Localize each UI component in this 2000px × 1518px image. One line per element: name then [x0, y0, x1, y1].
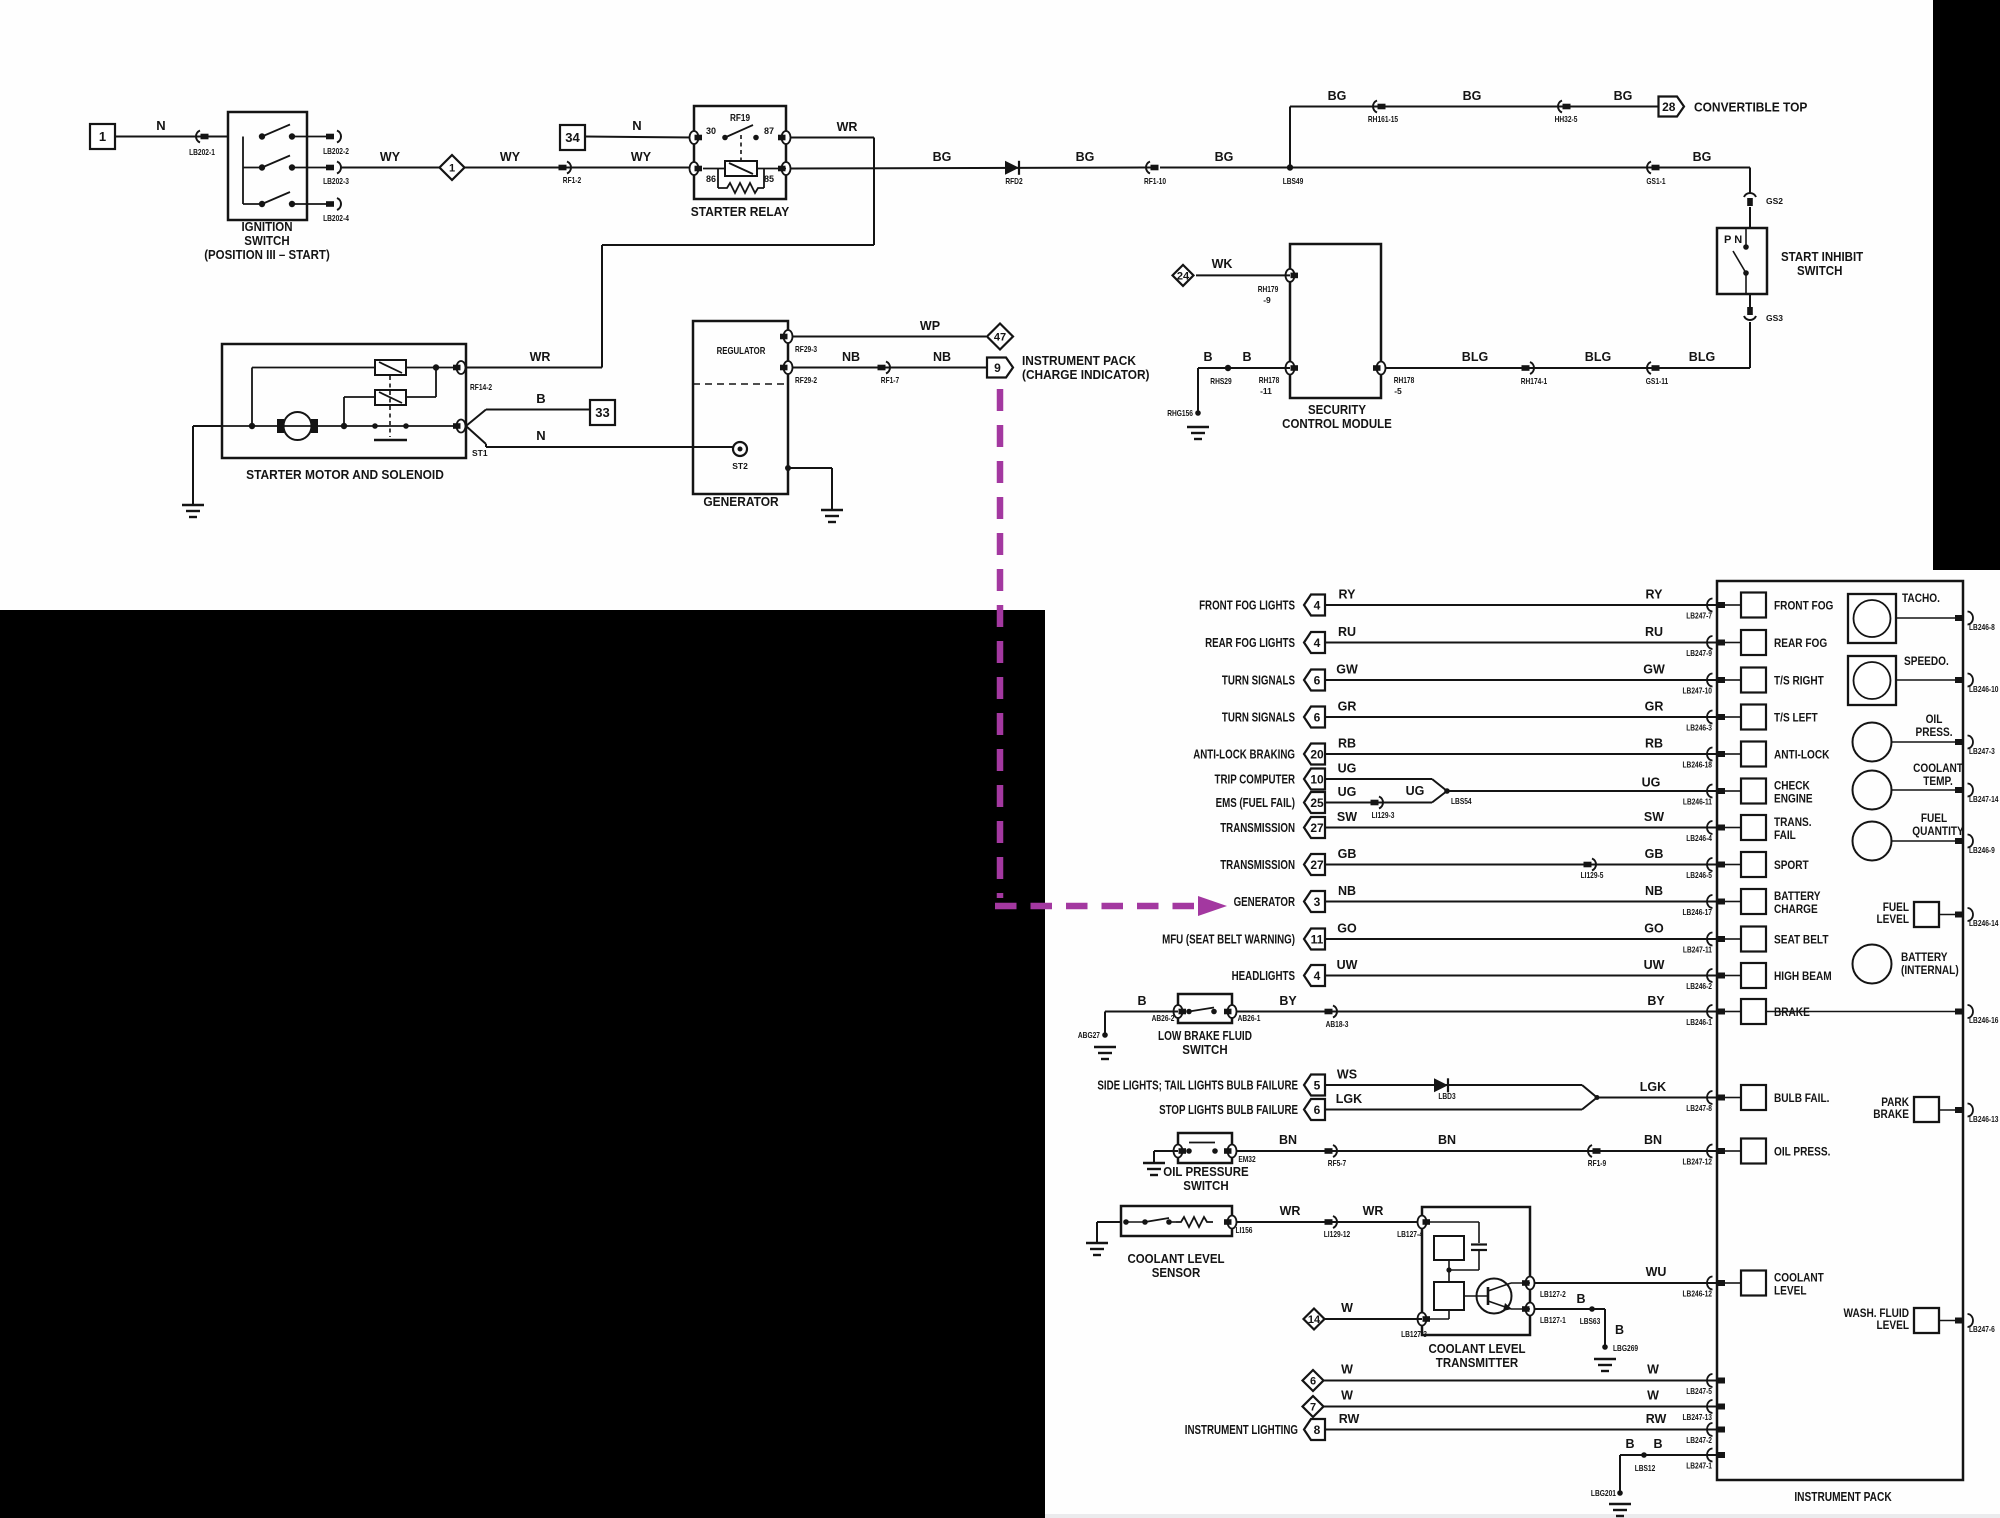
svg-text:ANTI-LOCK BRAKING: ANTI-LOCK BRAKING	[1193, 748, 1295, 762]
svg-text:CONTROL MODULE: CONTROL MODULE	[1282, 417, 1392, 431]
svg-text:STARTER RELAY: STARTER RELAY	[691, 204, 790, 219]
svg-text:SWITCH: SWITCH	[1183, 1179, 1228, 1193]
svg-text:RH179: RH179	[1258, 284, 1279, 294]
svg-text:27: 27	[1310, 858, 1324, 872]
svg-text:6: 6	[1310, 1376, 1316, 1388]
svg-text:LB202-2: LB202-2	[323, 146, 349, 156]
svg-text:AB26-2: AB26-2	[1152, 1013, 1175, 1023]
svg-text:1: 1	[449, 163, 455, 175]
svg-text:UW: UW	[1644, 958, 1665, 972]
svg-text:B: B	[1242, 350, 1251, 364]
svg-text:TACHO.: TACHO.	[1902, 591, 1940, 605]
svg-text:OIL: OIL	[1926, 712, 1943, 726]
svg-text:ST1: ST1	[472, 448, 488, 458]
svg-text:INSTRUMENT PACK: INSTRUMENT PACK	[1022, 354, 1136, 368]
svg-text:9: 9	[994, 361, 1001, 375]
svg-text:UG: UG	[1338, 785, 1357, 799]
svg-text:LB246-3: LB246-3	[1686, 723, 1712, 733]
svg-text:(INTERNAL): (INTERNAL)	[1901, 963, 1959, 977]
svg-text:UW: UW	[1337, 958, 1358, 972]
svg-text:6: 6	[1314, 674, 1321, 688]
svg-text:25: 25	[1310, 796, 1324, 810]
svg-text:GS2: GS2	[1766, 196, 1783, 206]
svg-text:FUEL: FUEL	[1921, 811, 1947, 825]
svg-text:LB246-14: LB246-14	[1969, 918, 1999, 928]
svg-text:START INHIBIT: START INHIBIT	[1781, 250, 1864, 264]
svg-text:GS1-1: GS1-1	[1646, 176, 1665, 186]
svg-text:28: 28	[1662, 100, 1676, 114]
svg-text:LBG269: LBG269	[1613, 1343, 1638, 1353]
svg-text:11: 11	[1311, 933, 1324, 947]
svg-text:87: 87	[764, 126, 774, 136]
svg-text:-11: -11	[1260, 386, 1272, 396]
svg-text:FRONT FOG LIGHTS: FRONT FOG LIGHTS	[1199, 599, 1295, 613]
svg-text:LB202-4: LB202-4	[323, 213, 349, 223]
svg-text:SW: SW	[1644, 810, 1664, 824]
svg-text:LB127-4: LB127-4	[1397, 1229, 1423, 1239]
svg-text:RF29-2: RF29-2	[795, 375, 817, 385]
svg-text:ST2: ST2	[732, 461, 748, 471]
svg-text:47: 47	[994, 332, 1006, 344]
svg-text:BG: BG	[1215, 150, 1234, 164]
svg-text:RH178: RH178	[1259, 375, 1280, 385]
svg-text:B: B	[1137, 994, 1146, 1008]
svg-text:5: 5	[1314, 1079, 1321, 1093]
svg-text:UG: UG	[1406, 784, 1425, 798]
svg-text:AB26-1: AB26-1	[1238, 1013, 1261, 1023]
svg-text:BY: BY	[1279, 994, 1297, 1008]
svg-text:WP: WP	[920, 319, 940, 333]
svg-text:ABG27: ABG27	[1078, 1030, 1100, 1040]
svg-text:30: 30	[706, 126, 716, 136]
svg-text:85: 85	[764, 174, 774, 184]
svg-text:OIL PRESSURE: OIL PRESSURE	[1163, 1165, 1248, 1179]
svg-text:W: W	[1647, 1363, 1659, 1377]
svg-text:BULB FAIL.: BULB FAIL.	[1774, 1091, 1829, 1105]
svg-text:LBS63: LBS63	[1580, 1316, 1601, 1326]
svg-text:34: 34	[565, 130, 580, 145]
svg-text:GS1-11: GS1-11	[1646, 376, 1669, 386]
svg-text:PRESS.: PRESS.	[1916, 725, 1953, 739]
svg-text:SENSOR: SENSOR	[1152, 1266, 1201, 1280]
svg-text:GB: GB	[1645, 847, 1664, 861]
svg-text:GO: GO	[1644, 922, 1664, 936]
svg-text:SPEEDO.: SPEEDO.	[1904, 654, 1949, 668]
svg-text:LEVEL: LEVEL	[1877, 912, 1910, 926]
svg-text:SIDE LIGHTS; TAIL LIGHTS BULB: SIDE LIGHTS; TAIL LIGHTS BULB FAILURE	[1097, 1079, 1298, 1093]
svg-text:W: W	[1647, 1389, 1659, 1403]
svg-text:SECURITY: SECURITY	[1308, 403, 1367, 417]
svg-text:BATTERY: BATTERY	[1774, 889, 1821, 903]
svg-text:LGK: LGK	[1640, 1080, 1666, 1094]
svg-text:BLG: BLG	[1689, 350, 1715, 364]
svg-text:LB247-6: LB247-6	[1969, 1324, 1995, 1334]
svg-text:SEAT BELT: SEAT BELT	[1774, 933, 1829, 947]
svg-text:INSTRUMENT LIGHTING: INSTRUMENT LIGHTING	[1185, 1423, 1298, 1437]
svg-text:LB247-2: LB247-2	[1686, 1435, 1712, 1445]
svg-text:3: 3	[1314, 895, 1321, 909]
svg-text:LB247-1: LB247-1	[1686, 1461, 1712, 1471]
svg-text:LB246-17: LB246-17	[1683, 907, 1713, 917]
svg-text:-5: -5	[1394, 386, 1402, 396]
svg-text:HH32-5: HH32-5	[1555, 114, 1578, 124]
svg-text:BLG: BLG	[1585, 350, 1611, 364]
svg-text:LBG201: LBG201	[1591, 1488, 1616, 1498]
svg-text:RFD2: RFD2	[1005, 176, 1023, 186]
svg-text:TEMP.: TEMP.	[1923, 774, 1953, 788]
svg-text:BN: BN	[1438, 1133, 1456, 1147]
svg-text:LBS49: LBS49	[1283, 176, 1304, 186]
svg-text:MFU (SEAT BELT WARNING): MFU (SEAT BELT WARNING)	[1162, 933, 1295, 947]
svg-text:SWITCH: SWITCH	[1182, 1043, 1227, 1057]
svg-text:WS: WS	[1337, 1068, 1357, 1082]
svg-text:WY: WY	[500, 150, 521, 164]
svg-text:7: 7	[1310, 1402, 1316, 1414]
svg-text:LEVEL: LEVEL	[1774, 1284, 1807, 1298]
svg-text:SWITCH: SWITCH	[244, 234, 289, 248]
svg-text:24: 24	[1177, 270, 1190, 282]
svg-text:LB246-13: LB246-13	[1969, 1114, 1999, 1124]
svg-text:COOLANT: COOLANT	[1774, 1271, 1824, 1285]
svg-text:GENERATOR: GENERATOR	[1234, 895, 1295, 909]
svg-text:OIL PRESS.: OIL PRESS.	[1774, 1145, 1830, 1159]
svg-text:10: 10	[1310, 773, 1324, 787]
svg-text:RW: RW	[1646, 1412, 1667, 1426]
svg-text:RF1-10: RF1-10	[1144, 176, 1166, 186]
svg-text:LI129-3: LI129-3	[1372, 810, 1395, 820]
svg-text:IGNITION: IGNITION	[241, 220, 292, 234]
svg-text:GW: GW	[1643, 663, 1665, 677]
svg-text:NB: NB	[1338, 884, 1356, 898]
svg-text:RW: RW	[1339, 1412, 1360, 1426]
svg-text:RU: RU	[1338, 625, 1356, 639]
svg-text:LB247-9: LB247-9	[1686, 648, 1712, 658]
svg-text:RY: RY	[1339, 588, 1357, 602]
svg-text:SWITCH: SWITCH	[1797, 264, 1842, 278]
svg-text:BLG: BLG	[1462, 350, 1488, 364]
svg-text:B: B	[536, 391, 545, 406]
svg-text:RU: RU	[1645, 625, 1663, 639]
svg-text:W: W	[1341, 1363, 1353, 1377]
svg-text:GO: GO	[1337, 922, 1357, 936]
svg-text:TRIP COMPUTER: TRIP COMPUTER	[1215, 773, 1296, 787]
svg-text:LB247-13: LB247-13	[1683, 1412, 1713, 1422]
svg-text:EMS (FUEL FAIL): EMS (FUEL FAIL)	[1216, 796, 1295, 810]
svg-text:W: W	[1341, 1389, 1353, 1403]
svg-text:LB247-12: LB247-12	[1683, 1157, 1713, 1167]
svg-text:LB246-18: LB246-18	[1683, 760, 1713, 770]
svg-text:HEADLIGHTS: HEADLIGHTS	[1232, 969, 1295, 983]
svg-text:RF5-7: RF5-7	[1328, 1158, 1347, 1168]
svg-text:NB: NB	[842, 350, 860, 364]
svg-text:6: 6	[1314, 711, 1321, 725]
svg-text:27: 27	[1310, 821, 1324, 835]
svg-text:LB127-2: LB127-2	[1540, 1289, 1566, 1299]
svg-text:8: 8	[1314, 1423, 1321, 1437]
svg-text:LB247-11: LB247-11	[1683, 945, 1712, 955]
svg-text:AB18-3: AB18-3	[1326, 1019, 1349, 1029]
svg-text:RHG156: RHG156	[1167, 408, 1193, 418]
svg-text:BG: BG	[1328, 89, 1347, 103]
svg-text:WU: WU	[1646, 1265, 1667, 1279]
svg-text:RF19: RF19	[730, 112, 750, 124]
svg-text:WR: WR	[837, 120, 858, 134]
svg-text:1: 1	[99, 129, 106, 144]
svg-text:NB: NB	[1645, 884, 1663, 898]
svg-text:COOLANT LEVEL: COOLANT LEVEL	[1127, 1252, 1224, 1266]
svg-text:WY: WY	[631, 150, 652, 164]
svg-text:GW: GW	[1336, 663, 1358, 677]
svg-text:LB247-5: LB247-5	[1686, 1386, 1712, 1396]
svg-text:STOP LIGHTS BULB FAILURE: STOP LIGHTS BULB FAILURE	[1159, 1103, 1298, 1117]
svg-text:LB247-10: LB247-10	[1683, 686, 1713, 696]
svg-text:RY: RY	[1646, 588, 1664, 602]
svg-text:LBS54: LBS54	[1451, 796, 1472, 806]
svg-text:LB247-7: LB247-7	[1686, 611, 1712, 621]
svg-text:SW: SW	[1337, 810, 1357, 824]
svg-text:GB: GB	[1338, 847, 1357, 861]
svg-text:RHS29: RHS29	[1210, 376, 1232, 386]
svg-text:B: B	[1625, 1437, 1634, 1451]
svg-text:LB127-1: LB127-1	[1540, 1315, 1566, 1325]
svg-text:TRANSMITTER: TRANSMITTER	[1436, 1356, 1518, 1370]
svg-text:LB246-16: LB246-16	[1969, 1015, 1999, 1025]
svg-text:LBD3: LBD3	[1438, 1091, 1456, 1101]
svg-text:FRONT FOG: FRONT FOG	[1774, 599, 1833, 613]
svg-text:LB247-8: LB247-8	[1686, 1103, 1712, 1113]
svg-text:LB202-3: LB202-3	[323, 176, 349, 186]
svg-text:(POSITION III – START): (POSITION III – START)	[204, 248, 330, 262]
svg-text:4: 4	[1314, 599, 1321, 613]
svg-text:GS3: GS3	[1766, 313, 1783, 323]
svg-text:RB: RB	[1338, 737, 1356, 751]
svg-text:REGULATOR: REGULATOR	[717, 346, 766, 357]
svg-text:WK: WK	[1212, 257, 1233, 271]
svg-text:14: 14	[1308, 1314, 1321, 1326]
svg-text:LB246-9: LB246-9	[1969, 845, 1995, 855]
svg-text:HIGH BEAM: HIGH BEAM	[1774, 969, 1832, 983]
svg-text:4: 4	[1314, 636, 1321, 650]
svg-text:RH161-15: RH161-15	[1368, 114, 1398, 124]
svg-text:COOLANT: COOLANT	[1913, 761, 1963, 775]
svg-text:GENERATOR: GENERATOR	[703, 494, 779, 509]
svg-text:RF1-7: RF1-7	[881, 375, 900, 385]
svg-text:T/S LEFT: T/S LEFT	[1774, 711, 1818, 725]
svg-text:WR: WR	[530, 350, 551, 364]
svg-text:N: N	[632, 118, 641, 133]
svg-text:BY: BY	[1647, 994, 1665, 1008]
svg-text:LI156: LI156	[1236, 1225, 1253, 1235]
svg-text:BATTERY: BATTERY	[1901, 950, 1948, 964]
svg-text:BG: BG	[1614, 89, 1633, 103]
svg-text:RF1-2: RF1-2	[563, 175, 582, 185]
svg-text:RF29-3: RF29-3	[795, 344, 817, 354]
svg-text:BG: BG	[1076, 150, 1095, 164]
svg-text:BG: BG	[933, 150, 952, 164]
svg-text:20: 20	[1310, 748, 1324, 762]
svg-text:TRANS.: TRANS.	[1774, 815, 1812, 829]
svg-text:CONVERTIBLE TOP: CONVERTIBLE TOP	[1694, 100, 1808, 115]
svg-text:LB246-1: LB246-1	[1686, 1017, 1712, 1027]
svg-text:COOLANT LEVEL: COOLANT LEVEL	[1428, 1342, 1525, 1356]
svg-text:TRANSMISSION: TRANSMISSION	[1220, 858, 1295, 872]
svg-text:6: 6	[1314, 1103, 1321, 1117]
svg-text:GR: GR	[1645, 700, 1664, 714]
svg-text:FAIL: FAIL	[1774, 828, 1796, 842]
svg-text:B: B	[1615, 1323, 1624, 1337]
svg-text:N: N	[156, 118, 165, 133]
svg-text:RF14-2: RF14-2	[470, 382, 492, 392]
svg-text:QUANTITY: QUANTITY	[1912, 824, 1964, 838]
svg-text:B: B	[1653, 1437, 1662, 1451]
svg-text:NB: NB	[933, 350, 951, 364]
svg-text:33: 33	[595, 405, 609, 420]
svg-text:BRAKE: BRAKE	[1873, 1107, 1909, 1121]
svg-text:LB247-14: LB247-14	[1969, 794, 1999, 804]
svg-text:-9: -9	[1263, 295, 1271, 305]
svg-text:LB246-10: LB246-10	[1969, 684, 1999, 694]
svg-text:LB246-5: LB246-5	[1686, 870, 1712, 880]
svg-text:TRANSMISSION: TRANSMISSION	[1220, 821, 1295, 835]
svg-text:4: 4	[1314, 969, 1321, 983]
svg-text:STARTER MOTOR AND SOLENOID: STARTER MOTOR AND SOLENOID	[246, 467, 444, 482]
svg-text:T/S RIGHT: T/S RIGHT	[1774, 674, 1824, 688]
svg-text:LEVEL: LEVEL	[1877, 1318, 1910, 1332]
svg-text:REAR FOG LIGHTS: REAR FOG LIGHTS	[1205, 636, 1295, 650]
svg-text:LOW BRAKE FLUID: LOW BRAKE FLUID	[1158, 1029, 1252, 1043]
svg-text:SPORT: SPORT	[1774, 858, 1809, 872]
svg-text:BN: BN	[1279, 1133, 1297, 1147]
svg-text:UG: UG	[1338, 762, 1357, 776]
svg-text:RB: RB	[1645, 737, 1663, 751]
svg-text:B: B	[1576, 1292, 1585, 1306]
svg-text:RH178: RH178	[1394, 375, 1415, 385]
svg-text:TURN SIGNALS: TURN SIGNALS	[1222, 674, 1295, 688]
svg-text:INSTRUMENT PACK: INSTRUMENT PACK	[1794, 1489, 1892, 1504]
svg-text:B: B	[1203, 350, 1212, 364]
svg-text:WY: WY	[380, 150, 401, 164]
svg-text:LI129-5: LI129-5	[1581, 870, 1604, 880]
svg-text:(CHARGE INDICATOR): (CHARGE INDICATOR)	[1022, 368, 1150, 382]
svg-text:CHECK: CHECK	[1774, 779, 1810, 793]
svg-text:BN: BN	[1644, 1133, 1662, 1147]
svg-text:WR: WR	[1363, 1204, 1384, 1218]
svg-text:ENGINE: ENGINE	[1774, 792, 1813, 806]
svg-text:GR: GR	[1338, 700, 1357, 714]
svg-text:LB246-2: LB246-2	[1686, 981, 1712, 991]
svg-text:BG: BG	[1693, 150, 1712, 164]
svg-text:LGK: LGK	[1336, 1092, 1362, 1106]
svg-text:TURN SIGNALS: TURN SIGNALS	[1222, 711, 1295, 725]
svg-text:CHARGE: CHARGE	[1774, 902, 1818, 916]
svg-text:LBS12: LBS12	[1635, 1463, 1656, 1473]
svg-text:LB246-11: LB246-11	[1683, 797, 1712, 807]
svg-text:LB202-1: LB202-1	[189, 147, 215, 157]
svg-text:BG: BG	[1463, 89, 1482, 103]
svg-text:UG: UG	[1642, 776, 1661, 790]
svg-text:LB127-3: LB127-3	[1401, 1329, 1427, 1339]
svg-text:WR: WR	[1280, 1204, 1301, 1218]
svg-text:LB247-3: LB247-3	[1969, 746, 1995, 756]
svg-text:LB246-8: LB246-8	[1969, 622, 1995, 632]
svg-text:N: N	[536, 428, 545, 443]
svg-text:RH174-1: RH174-1	[1521, 376, 1548, 386]
svg-text:RF1-9: RF1-9	[1588, 1158, 1607, 1168]
svg-text:REAR FOG: REAR FOG	[1774, 636, 1827, 650]
svg-text:86: 86	[706, 174, 716, 184]
svg-text:LB246-12: LB246-12	[1683, 1289, 1713, 1299]
svg-text:LB246-4: LB246-4	[1686, 833, 1712, 843]
svg-text:W: W	[1341, 1301, 1353, 1315]
svg-text:EM32: EM32	[1238, 1154, 1256, 1164]
svg-text:LI129-12: LI129-12	[1324, 1229, 1351, 1239]
svg-text:P N: P N	[1724, 234, 1742, 246]
svg-text:ANTI-LOCK: ANTI-LOCK	[1774, 748, 1830, 762]
